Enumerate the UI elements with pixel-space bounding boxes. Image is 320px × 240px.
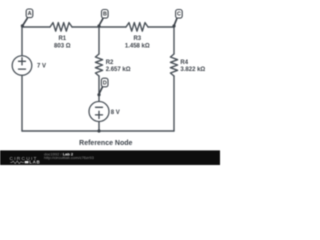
svg-text:http://circuitlab.com/c76zr93: http://circuitlab.com/c76zr93 xyxy=(44,155,95,160)
svg-text:R3: R3 xyxy=(133,36,141,42)
svg-text:A: A xyxy=(28,11,32,17)
svg-text:R1: R1 xyxy=(58,36,66,42)
svg-text:C: C xyxy=(177,12,181,18)
svg-text:Reference Node: Reference Node xyxy=(79,140,132,147)
svg-text:R4: R4 xyxy=(180,60,188,66)
svg-text:LAB: LAB xyxy=(29,159,40,164)
svg-text:8 V: 8 V xyxy=(111,110,120,116)
svg-text:803 Ω: 803 Ω xyxy=(54,44,71,50)
svg-text:7 V: 7 V xyxy=(37,64,46,70)
svg-text:R2: R2 xyxy=(106,60,114,66)
svg-text:1.458 kΩ: 1.458 kΩ xyxy=(125,44,150,50)
svg-text:3.822 kΩ: 3.822 kΩ xyxy=(180,67,205,73)
svg-text:B: B xyxy=(103,12,107,18)
svg-text:2.657 kΩ: 2.657 kΩ xyxy=(106,67,131,73)
svg-text:D: D xyxy=(103,80,107,86)
